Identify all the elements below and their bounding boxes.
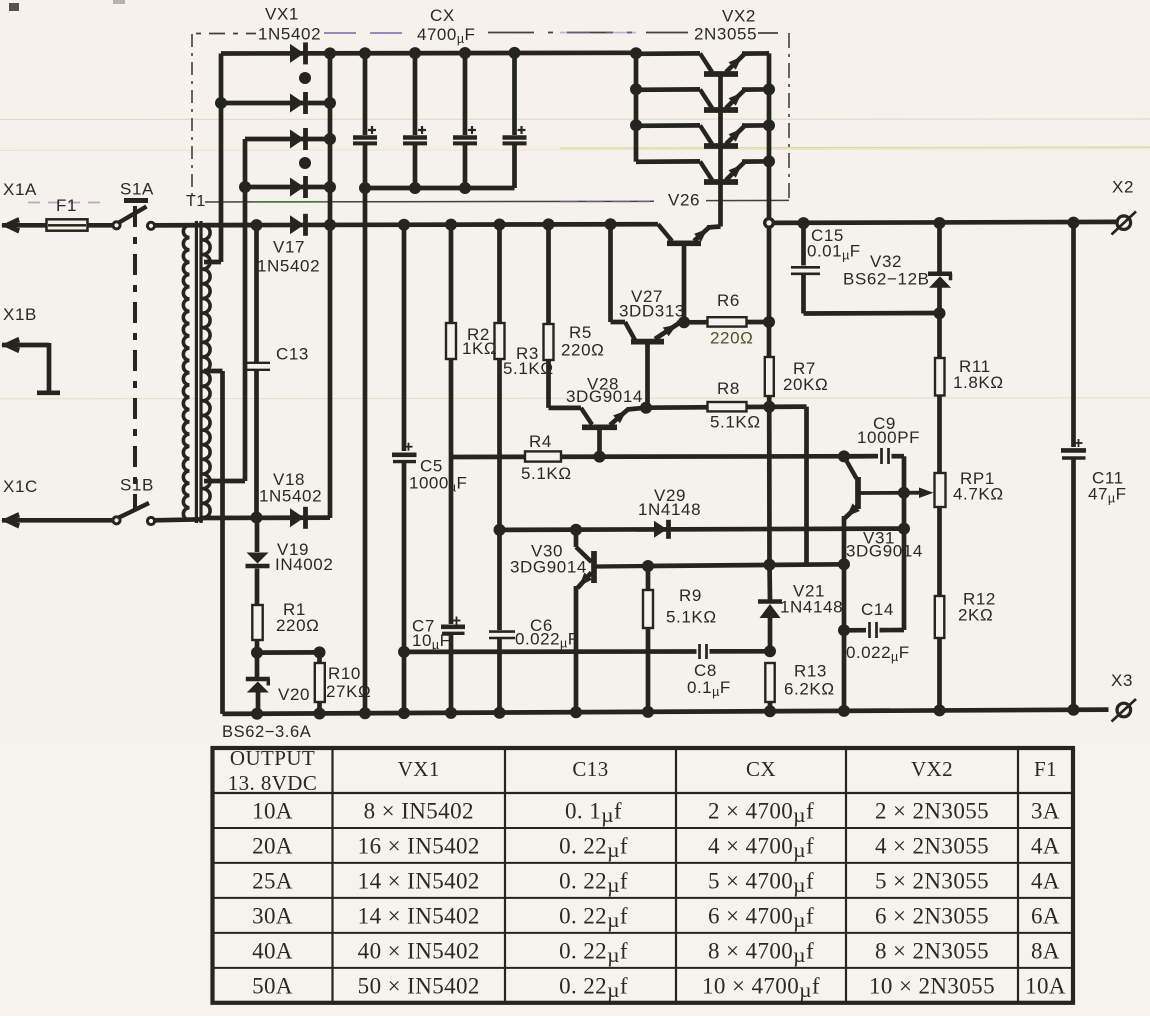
svg-text:0. 22µf: 0. 22µf — [559, 868, 628, 897]
svg-text:C13: C13 — [572, 757, 608, 781]
svg-text:0. 22µf: 0. 22µf — [559, 903, 628, 932]
svg-text:X1A: X1A — [3, 180, 37, 199]
svg-text:16 × IN5402: 16 × IN5402 — [358, 833, 480, 858]
svg-text:50 × IN5402: 50 × IN5402 — [358, 973, 480, 998]
svg-text:40A: 40A — [252, 938, 293, 963]
svg-text:R6: R6 — [717, 291, 740, 310]
svg-text:S1B: S1B — [120, 476, 154, 495]
svg-text:VX2: VX2 — [722, 7, 756, 26]
svg-text:X1C: X1C — [3, 477, 38, 496]
svg-text:1000PF: 1000PF — [857, 428, 920, 447]
svg-text:6A: 6A — [1031, 903, 1060, 928]
svg-text:5.1KΩ: 5.1KΩ — [503, 359, 554, 378]
svg-text:VX1: VX1 — [265, 5, 299, 24]
svg-text:0. 1µf: 0. 1µf — [565, 798, 622, 827]
svg-text:10 × 2N3055: 10 × 2N3055 — [869, 973, 995, 998]
svg-text:1KΩ: 1KΩ — [462, 339, 497, 358]
svg-text:8 × IN5402: 8 × IN5402 — [364, 798, 474, 823]
svg-text:20A: 20A — [252, 833, 293, 858]
svg-text:F1: F1 — [1034, 757, 1057, 781]
svg-text:3DD313: 3DD313 — [619, 302, 685, 321]
svg-text:4.7KΩ: 4.7KΩ — [953, 485, 1004, 504]
svg-text:5.1KΩ: 5.1KΩ — [710, 413, 761, 432]
svg-text:3A: 3A — [1031, 798, 1060, 823]
svg-text:6 × 4700µf: 6 × 4700µf — [708, 903, 814, 932]
svg-text:R8: R8 — [717, 379, 740, 398]
svg-text:2 × 2N3055: 2 × 2N3055 — [875, 798, 989, 823]
svg-text:BS62−3.6A: BS62−3.6A — [222, 723, 311, 741]
svg-text:3DG9014: 3DG9014 — [510, 558, 587, 577]
svg-text:1N5402: 1N5402 — [258, 25, 321, 44]
svg-text:1000µF: 1000µF — [409, 474, 467, 495]
svg-text:50A: 50A — [252, 973, 293, 998]
svg-text:220Ω: 220Ω — [276, 616, 319, 635]
svg-text:4A: 4A — [1031, 868, 1060, 893]
svg-text:1N4148: 1N4148 — [638, 500, 701, 519]
svg-text:BS62−12B: BS62−12B — [843, 270, 930, 289]
svg-text:4A: 4A — [1031, 833, 1060, 858]
svg-text:1N4148: 1N4148 — [780, 598, 843, 617]
svg-text:S1A: S1A — [120, 180, 154, 199]
svg-text:5.1KΩ: 5.1KΩ — [666, 608, 717, 627]
svg-text:8 × 4700µf: 8 × 4700µf — [708, 938, 814, 967]
svg-text:F1: F1 — [56, 196, 77, 215]
svg-text:VX2: VX2 — [911, 757, 953, 781]
svg-text:VX1: VX1 — [398, 757, 440, 781]
svg-text:R13: R13 — [794, 662, 827, 681]
svg-text:0.01µF: 0.01µF — [807, 242, 861, 263]
svg-text:6 × 2N3055: 6 × 2N3055 — [875, 903, 989, 928]
svg-text:X2: X2 — [1112, 178, 1134, 197]
svg-text:10µF: 10µF — [412, 631, 451, 652]
svg-text:4 × 2N3055: 4 × 2N3055 — [875, 833, 989, 858]
svg-text:0.1µF: 0.1µF — [687, 678, 731, 699]
svg-text:R9: R9 — [679, 586, 702, 605]
svg-text:X3: X3 — [1111, 671, 1133, 690]
svg-text:R10: R10 — [328, 664, 361, 683]
svg-text:40 × IN5402: 40 × IN5402 — [358, 938, 480, 963]
svg-text:47µF: 47µF — [1088, 485, 1127, 506]
svg-text:30A: 30A — [252, 903, 293, 928]
svg-text:8 × 2N3055: 8 × 2N3055 — [875, 938, 989, 963]
svg-text:V26: V26 — [668, 191, 700, 210]
svg-text:0. 22µf: 0. 22µf — [559, 938, 628, 967]
svg-text:0. 22µf: 0. 22µf — [559, 973, 628, 1002]
svg-text:5.1KΩ: 5.1KΩ — [521, 464, 572, 483]
svg-text:R5: R5 — [569, 323, 592, 342]
svg-text:C13: C13 — [276, 345, 309, 364]
svg-text:220Ω: 220Ω — [710, 329, 753, 348]
svg-text:2KΩ: 2KΩ — [958, 606, 993, 625]
svg-text:8A: 8A — [1031, 938, 1060, 963]
svg-text:14 × IN5402: 14 × IN5402 — [358, 868, 480, 893]
svg-text:0. 22µf: 0. 22µf — [559, 833, 628, 862]
svg-text:3DG9014: 3DG9014 — [566, 387, 643, 406]
svg-text:2 × 4700µf: 2 × 4700µf — [708, 798, 814, 827]
svg-text:5 × 2N3055: 5 × 2N3055 — [875, 868, 989, 893]
svg-text:10 × 4700µf: 10 × 4700µf — [702, 973, 820, 1002]
svg-text:CX: CX — [746, 757, 776, 781]
svg-text:10A: 10A — [1025, 973, 1066, 998]
svg-text:R4: R4 — [529, 432, 552, 451]
svg-text:4700µF: 4700µF — [417, 25, 475, 46]
svg-text:0.022µF: 0.022µF — [515, 630, 579, 651]
svg-text:X1B: X1B — [3, 305, 37, 324]
svg-text:1N5402: 1N5402 — [257, 257, 320, 276]
svg-text:220Ω: 220Ω — [561, 341, 604, 360]
svg-text:IN4002: IN4002 — [275, 555, 333, 574]
svg-text:V17: V17 — [273, 238, 305, 257]
svg-text:C14: C14 — [861, 600, 894, 619]
svg-text:T1: T1 — [186, 193, 206, 210]
svg-text:4 × 4700µf: 4 × 4700µf — [708, 833, 814, 862]
svg-text:27KΩ: 27KΩ — [326, 682, 371, 701]
svg-text:V20: V20 — [278, 685, 310, 704]
svg-text:0.022µF: 0.022µF — [846, 643, 910, 664]
svg-text:10A: 10A — [252, 798, 293, 823]
svg-text:1N5402: 1N5402 — [259, 487, 322, 506]
svg-text:20KΩ: 20KΩ — [783, 375, 828, 394]
svg-text:25A: 25A — [252, 868, 293, 893]
svg-text:CX: CX — [430, 6, 455, 25]
svg-text:14 × IN5402: 14 × IN5402 — [358, 903, 480, 928]
svg-text:2N3055: 2N3055 — [694, 25, 757, 44]
svg-text:V32: V32 — [870, 252, 902, 271]
svg-text:1.8KΩ: 1.8KΩ — [953, 373, 1004, 392]
svg-text:3DG9014: 3DG9014 — [846, 542, 923, 561]
svg-text:5 × 4700µf: 5 × 4700µf — [708, 868, 814, 897]
svg-text:OUTPUT: OUTPUT — [230, 746, 315, 770]
svg-text:13. 8VDC: 13. 8VDC — [228, 771, 318, 795]
svg-text:6.2KΩ: 6.2KΩ — [784, 680, 835, 699]
